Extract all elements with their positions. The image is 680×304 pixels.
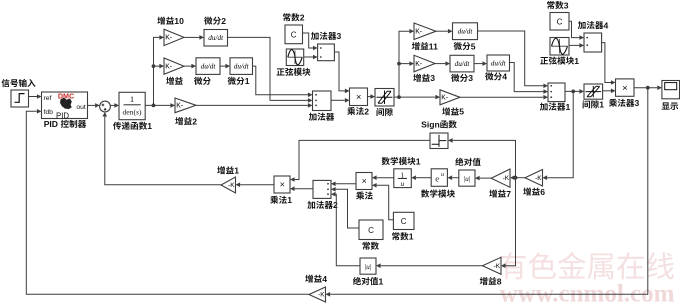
wire 乘法1 to 增益1 — [236, 182, 275, 187]
wire 增益3 to 微分3 — [435, 61, 450, 66]
label 加法器3 — [311, 31, 342, 41]
wire 增益8 to 绝对值1 — [376, 263, 483, 268]
wire 数学模块 to 数学模块1 — [411, 175, 431, 180]
svg-text:den(s): den(s) — [123, 108, 142, 117]
wire 增益11 to 微分5 — [436, 29, 453, 34]
svg-text:2: 2 — [300, 13, 305, 23]
wire 数学模块1 to 乘法 input1 — [372, 175, 394, 180]
svg-text:1: 1 — [574, 56, 579, 66]
wire 间隙 to 增益5 with taps to 增益11 增益3 — [394, 29, 440, 100]
svg-text:2: 2 — [364, 106, 369, 116]
svg-text:-K: -K — [503, 175, 510, 182]
wire 常数 to 加法器2 input2 — [331, 187, 359, 228]
block Sign函数 signum — [430, 133, 448, 149]
multiplier 乘法 — [356, 173, 372, 190]
svg-text:1: 1 — [245, 76, 250, 86]
label 加法器 — [309, 113, 335, 121]
label 增益10 — [157, 16, 184, 26]
svg-text:3: 3 — [430, 73, 435, 83]
block 数学模块 exp — [431, 169, 447, 187]
wire 微分3 to 微分4 — [474, 61, 487, 66]
label 增益3 — [413, 73, 435, 83]
label 正弦模块1 — [540, 56, 579, 66]
constant 常数1 — [393, 212, 414, 229]
wire 间隙1 to 乘法器3 — [603, 89, 616, 94]
gain 增益8 — [483, 257, 502, 274]
svg-text:10: 10 — [174, 16, 184, 26]
watermark www.cnmol.com — [500, 281, 675, 304]
svg-text:|u|: |u| — [365, 262, 372, 271]
block 间隙1 backlash — [584, 84, 603, 99]
label 间隙1 — [583, 100, 605, 110]
label 乘法器3 — [609, 98, 640, 108]
wire sum to 传递函数1 — [110, 103, 119, 108]
label 显示 — [662, 102, 679, 110]
wire 加法器 to 乘法2 — [331, 98, 350, 103]
wire 增益5 to 加法器1 input3 — [460, 95, 548, 100]
wire 微分 to 微分1 — [220, 64, 230, 69]
wire 常数3 to 加法器4 — [569, 21, 584, 40]
gain 增益4 — [309, 287, 326, 302]
svg-text:u: u — [400, 179, 404, 188]
svg-text:K-: K- — [415, 61, 422, 68]
wire 增益10 to 微分2 — [184, 35, 204, 40]
wire 乘法器3 to 显示 and feedback down to 增益4 — [326, 85, 662, 296]
svg-text:5: 5 — [459, 107, 464, 117]
block 微分 derivative — [196, 58, 220, 75]
wire 增益1 to sum bottom input — [103, 112, 222, 185]
block 绝对值 abs — [459, 170, 475, 186]
watermark 有色金属在线 — [499, 252, 674, 279]
label 传递函数1 — [113, 121, 152, 131]
block 微分4 derivative — [487, 55, 510, 71]
svg-text:-K: -K — [228, 182, 235, 189]
svg-text:du/dt: du/dt — [234, 63, 250, 71]
svg-text:C: C — [368, 226, 374, 235]
svg-text:-K: -K — [318, 292, 325, 299]
svg-text:×: × — [622, 83, 628, 94]
label 增益11 — [412, 41, 438, 51]
svg-text:1: 1 — [147, 121, 152, 131]
label 加法器2 — [307, 200, 338, 210]
svg-text:K-: K- — [176, 103, 183, 110]
label 加法器4 — [578, 20, 609, 30]
wire junction up to Sign函数 — [448, 138, 516, 178]
svg-text:out: out — [76, 104, 86, 111]
label 信号输入 — [2, 79, 36, 87]
wire 乘法2 to 间隙 — [368, 94, 376, 99]
svg-text:u: u — [441, 172, 444, 178]
label 常数2 — [283, 13, 305, 23]
svg-text:e: e — [435, 174, 439, 184]
label 微分2 — [204, 16, 226, 26]
adder 加法器4 — [584, 33, 602, 52]
wire 增益2 to 加法器 input3 — [196, 103, 313, 108]
gain 增益5 — [440, 90, 460, 105]
label 微分 — [194, 77, 211, 85]
adder 加法器2 — [313, 180, 331, 198]
svg-text:C: C — [557, 18, 563, 27]
label 增益7 — [489, 189, 511, 199]
svg-text:du/dt: du/dt — [201, 63, 217, 71]
wire step to PID ref — [29, 94, 42, 99]
svg-text:fdb: fdb — [44, 109, 54, 116]
wire 传递函数1 output net — [145, 35, 175, 108]
label 乘法2 — [347, 106, 369, 116]
block 显示 scope — [662, 81, 680, 99]
label 正弦模块 — [277, 68, 311, 76]
svg-text:1: 1 — [566, 102, 571, 112]
wire 正弦模块 to 加法器3 — [304, 55, 318, 60]
label 常数 — [363, 242, 379, 250]
svg-text:2: 2 — [221, 16, 226, 26]
svg-text:3: 3 — [635, 98, 640, 108]
multiplier 乘法器3 — [616, 79, 635, 96]
svg-text:×: × — [356, 92, 362, 103]
block 微分2 derivative — [204, 30, 228, 47]
wire 微分5 to 加法器1 input1 — [478, 31, 549, 88]
svg-text:-K: -K — [494, 263, 501, 270]
block 微分5 derivative — [453, 23, 478, 40]
label 增益8 — [480, 276, 502, 286]
sum junction node — [100, 101, 111, 112]
label 增益2 — [175, 116, 197, 126]
multiplier 乘法2 — [350, 88, 368, 106]
gain 增益2 — [175, 98, 196, 113]
label 增益 — [166, 77, 183, 85]
svg-text:1: 1 — [599, 100, 604, 110]
block 微分3 derivative — [450, 55, 474, 72]
wire 绝对值 to 数学模块 — [448, 175, 459, 180]
svg-text:www.cnmol.com: www.cnmol.com — [500, 281, 675, 304]
label 增益6 — [523, 187, 545, 197]
label 常数1 — [392, 232, 414, 242]
label 增益1 — [217, 166, 239, 176]
svg-text:DMC: DMC — [58, 91, 74, 100]
label 微分5 — [454, 41, 476, 51]
constant 常数 — [359, 220, 383, 240]
svg-text:K-: K- — [165, 35, 172, 42]
block 正弦模块1 sine — [550, 38, 569, 56]
wire 加法器2 to 乘法1 input2 — [290, 186, 313, 191]
svg-text:2: 2 — [192, 116, 197, 126]
label 加法器1 — [540, 102, 571, 112]
adder 加法器1 — [548, 83, 565, 102]
block PID 控制器 U1 — [42, 91, 88, 120]
label 增益4 — [305, 274, 327, 284]
svg-text:1: 1 — [409, 232, 414, 242]
block 传递函数1 transfer function — [119, 92, 145, 119]
block 信号输入 step source — [11, 90, 29, 107]
svg-text:1: 1 — [130, 94, 134, 104]
wire 增益4 to PID fdb feedback — [26, 109, 309, 294]
gain 增益10 — [164, 29, 184, 45]
block 正弦模块 sine — [286, 49, 303, 66]
label 常数3 — [547, 0, 569, 10]
svg-text:8: 8 — [497, 276, 502, 286]
wire 常数1 to 乘法 input2 — [372, 183, 393, 220]
block 微分1 derivative — [230, 58, 253, 75]
constant 常数2 — [285, 25, 303, 44]
svg-text:1: 1 — [287, 195, 292, 205]
svg-text:11: 11 — [429, 41, 438, 51]
wire 增益7 to 绝对值 — [475, 176, 491, 181]
svg-text:1: 1 — [234, 166, 239, 176]
label PID 控制器 — [44, 119, 86, 129]
svg-text:C: C — [291, 30, 297, 39]
wire 乘法 to 加法器2 input1 — [331, 182, 356, 187]
svg-text:K-: K- — [165, 63, 172, 70]
svg-text:du/dt: du/dt — [491, 60, 507, 68]
adder 加法器3 — [318, 44, 335, 61]
svg-text:du/dt: du/dt — [208, 34, 224, 42]
svg-text:Sign: Sign — [421, 120, 440, 130]
svg-text:|u|: |u| — [464, 174, 471, 183]
label 绝对值1 — [353, 276, 384, 286]
svg-text:7: 7 — [506, 189, 511, 199]
label 增益5 — [442, 107, 464, 117]
svg-text:×: × — [280, 179, 285, 189]
gain 增益6 — [525, 170, 543, 187]
wire 微分1 to 加法器 input1 — [253, 66, 313, 97]
block 间隙 backlash — [375, 89, 394, 107]
label 乘法1 — [270, 195, 292, 205]
svg-text:C: C — [401, 217, 407, 226]
svg-text:5: 5 — [471, 41, 476, 51]
label 乘法 — [356, 191, 373, 199]
gain 增益11 — [414, 23, 436, 40]
gain 增益7 — [491, 169, 510, 187]
svg-text:K-: K- — [415, 29, 422, 36]
label 数学模块1 — [382, 156, 421, 166]
svg-text:-K: -K — [535, 175, 542, 182]
svg-text:1: 1 — [416, 156, 421, 166]
svg-text:×: × — [362, 176, 367, 186]
gain 增益 — [164, 58, 184, 74]
svg-text:4: 4 — [502, 72, 507, 82]
block 数学模块1 reciprocal — [394, 169, 412, 188]
wire 绝对值1 to 加法器2 input3 — [331, 192, 360, 266]
svg-text:PID: PID — [44, 119, 58, 129]
svg-text:du/dt: du/dt — [458, 28, 474, 36]
svg-text:6: 6 — [540, 187, 545, 197]
svg-text:3: 3 — [337, 31, 342, 41]
svg-text:ref: ref — [44, 95, 52, 102]
label 绝对值 — [455, 158, 480, 166]
svg-text:2: 2 — [333, 200, 338, 210]
wire 加法器3 to 乘法2 — [334, 52, 349, 93]
label 间隙 — [377, 108, 393, 116]
wire 增益 to 微分 — [184, 64, 196, 69]
wire junction down to 增益8 — [501, 178, 516, 268]
wire 正弦模块1 to 加法器4 — [569, 43, 584, 48]
svg-text:du/dt: du/dt — [455, 60, 471, 68]
gain 增益1 — [221, 177, 236, 193]
block 绝对值1 abs — [360, 258, 376, 274]
svg-text:K-: K- — [441, 95, 448, 102]
label 数学模块 — [421, 189, 455, 197]
label 微分1 — [228, 76, 250, 86]
svg-text:1: 1 — [379, 276, 384, 286]
constant 常数3 — [550, 13, 569, 31]
label Sign函数 — [421, 120, 457, 130]
wire 加法器1 output to 间隙1 and down to 增益6 — [543, 89, 585, 180]
wire 加法器4 to 乘法器3 — [602, 43, 616, 85]
adder 加法器 — [313, 91, 332, 111]
wire 常数2 to 加法器3 — [303, 33, 318, 50]
gain 增益3 — [414, 55, 435, 72]
svg-text:4: 4 — [322, 274, 327, 284]
wire PID out to sum — [88, 103, 100, 108]
wire Sign函数 to 乘法1 input1 — [290, 140, 430, 181]
label 微分3 — [451, 73, 473, 83]
multiplier 乘法1 — [274, 176, 290, 193]
svg-text:3: 3 — [468, 73, 473, 83]
wire 微分4 to 加法器1 input2 — [510, 63, 549, 94]
label 微分4 — [485, 72, 507, 82]
wire 增益6 to 增益7 with junction — [510, 175, 525, 180]
svg-text:3: 3 — [564, 0, 569, 10]
svg-text:4: 4 — [604, 20, 609, 30]
wire 微分2 to 加法器 input2 — [228, 37, 313, 102]
